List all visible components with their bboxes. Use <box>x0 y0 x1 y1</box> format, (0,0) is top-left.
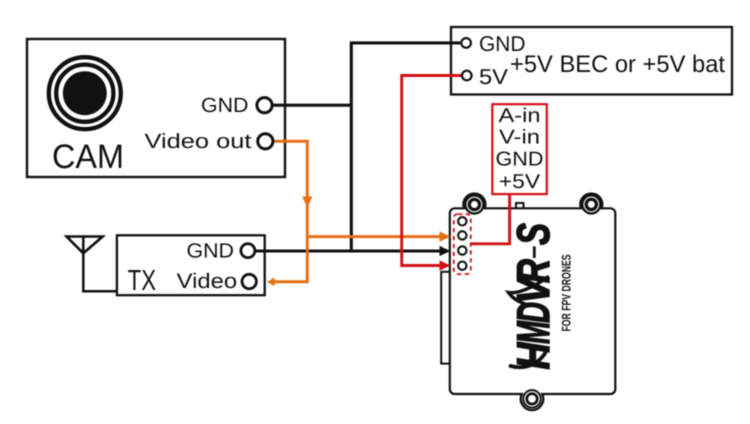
svg-text:FOR FPV DRONES: FOR FPV DRONES <box>560 255 574 332</box>
svg-text:CAM: CAM <box>52 138 124 176</box>
svg-text:GND: GND <box>496 149 544 171</box>
svg-text:Video out: Video out <box>145 130 252 153</box>
svg-text:R: R <box>507 259 559 283</box>
svg-text:V-in: V-in <box>499 127 540 149</box>
svg-text:5V: 5V <box>479 65 509 89</box>
svg-text:+5V BEC or +5V bat: +5V BEC or +5V bat <box>510 51 725 78</box>
svg-text:TX: TX <box>128 265 157 297</box>
svg-text:S: S <box>507 223 559 245</box>
svg-text:GND: GND <box>187 239 235 262</box>
svg-text:A-in: A-in <box>499 105 541 127</box>
svg-text:GND: GND <box>201 94 249 117</box>
svg-text:+5V: +5V <box>499 171 541 193</box>
svg-text:D: D <box>507 302 559 323</box>
svg-text:Video: Video <box>177 270 237 293</box>
